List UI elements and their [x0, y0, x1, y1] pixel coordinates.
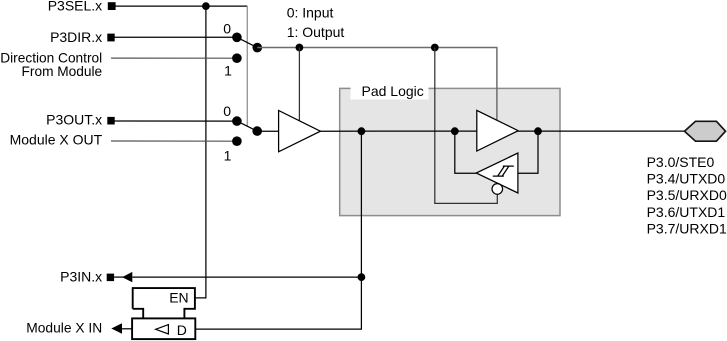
wire P3IN stub [114, 276, 124, 278]
svg-text:Module X OUT: Module X OUT [10, 131, 103, 147]
wire mux2 to output buffer [257, 130, 278, 132]
pad logic box [340, 88, 560, 215]
mux2 input 1 dot [232, 136, 242, 146]
node junction pad net to input path [358, 127, 366, 135]
node junction direction to schmitt enable [431, 44, 439, 52]
wire pad to schmitt input [518, 131, 538, 173]
wire leader Direction Control [111, 57, 237, 59]
svg-text:P3.7/URXD1: P3.7/URXD1 [647, 221, 727, 237]
wire P3DIR.x [114, 36, 237, 38]
svg-text:P3DIR.x: P3DIR.x [50, 29, 102, 45]
node junction on P3SEL wire [202, 2, 210, 10]
buffer U1 output driver [279, 111, 321, 152]
svg-text:1: 1 [224, 147, 232, 163]
schmitt hysteresis symbol [493, 166, 514, 176]
svg-text:From Module: From Module [22, 64, 103, 79]
mux1 wiper [237, 37, 257, 47]
wire enable path to schmitt bubble [435, 48, 498, 204]
wire direction control net [257, 48, 497, 121]
svg-text:P3.4/UTXD0: P3.4/UTXD0 [647, 171, 726, 187]
mux1 common dot [252, 43, 262, 53]
mux2 common dot [252, 126, 262, 136]
wire main pad net [320, 130, 684, 132]
node junction input path to P3IN [358, 273, 366, 281]
mux2 wiper [237, 121, 257, 131]
node junction schmitt output to pad driver input [451, 127, 459, 135]
node junction pad side [534, 127, 542, 135]
pad hexagon [685, 121, 726, 141]
svg-text:0: Input: 0: Input [287, 5, 334, 21]
svg-text:Module X IN: Module X IN [26, 321, 102, 336]
svg-text:P3OUT.x: P3OUT.x [46, 112, 102, 128]
latch D box [132, 318, 195, 339]
arrowhead P3IN [122, 272, 132, 282]
wire enable drop to output buffer [298, 48, 300, 121]
schmitt trigger U3 input buffer [476, 153, 518, 193]
latch EN box [133, 288, 195, 309]
wire P3IN.x [132, 276, 361, 278]
node junction direction to output buffer [296, 44, 304, 52]
terminal square P3OUT.x [107, 117, 114, 125]
terminal square P3DIR.x [107, 34, 114, 42]
svg-text:0: 0 [223, 21, 231, 37]
wire Module X IN stub [121, 328, 132, 330]
terminal square P3IN.x [107, 274, 114, 282]
pad logic label background [351, 81, 429, 100]
wire P3SEL.x horizontal [115, 5, 247, 7]
svg-text:Pad Logic: Pad Logic [362, 83, 424, 99]
wire input path vertical [195, 131, 361, 329]
wire leader Module X OUT [111, 140, 237, 142]
svg-text:1: Output: 1: Output [287, 24, 345, 40]
wire P3OUT.x [114, 120, 237, 122]
arrowhead Module X IN [111, 323, 122, 334]
svg-text:P3SEL.x: P3SEL.x [48, 0, 102, 14]
svg-text:P3IN.x: P3IN.x [60, 269, 102, 285]
svg-text:EN: EN [169, 290, 188, 306]
svg-text:P3.0/STE0: P3.0/STE0 [647, 154, 715, 170]
buffer U2 pad driver [477, 110, 518, 151]
mux2 input 0 dot [232, 116, 242, 126]
mux1 input 0 dot [232, 33, 242, 43]
svg-text:P3.6/UTXD1: P3.6/UTXD1 [647, 204, 726, 220]
svg-text:P3.5/URXD0: P3.5/URXD0 [647, 187, 727, 203]
latch clock triangle [156, 325, 169, 334]
schmitt enable bubble [492, 184, 503, 195]
svg-text:D: D [177, 322, 187, 338]
wire schmitt output path [455, 131, 476, 173]
mux1 input 1 dot [232, 53, 242, 63]
wire mux select line [246, 6, 248, 126]
svg-text:1: 1 [224, 62, 232, 78]
wire P3SEL vertical to EN latch [195, 6, 206, 298]
svg-text:0: 0 [223, 103, 231, 119]
terminal square P3SEL.x [108, 2, 116, 10]
